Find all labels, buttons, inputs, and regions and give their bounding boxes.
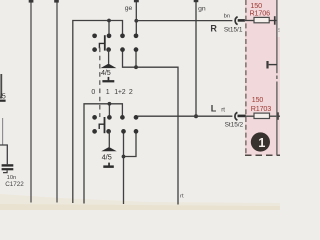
pink box bottom dashed border xyxy=(245,154,280,156)
junction dot xyxy=(122,155,126,159)
ge top terminal blob xyxy=(134,0,139,2)
ground triangle 4/5 upper xyxy=(101,64,117,69)
svg-text:4/5: 4/5 xyxy=(0,93,6,100)
wire: block2 branch down to contact xyxy=(108,104,110,118)
wire into resistor R1703 xyxy=(245,115,254,117)
wire into resistor R1706 xyxy=(245,20,254,22)
capacitor C1722 plates xyxy=(2,164,14,166)
switch block 2 contact dots top row xyxy=(92,115,97,120)
junction dot xyxy=(108,102,112,106)
capacitor C1722 lead from left xyxy=(0,145,7,164)
wire out of resistor R1703 xyxy=(270,115,281,117)
connector strip white corner top-right xyxy=(277,0,280,37)
switch block 1 contact dots top row xyxy=(92,33,97,38)
ground wire from block 2 xyxy=(108,131,110,147)
pin bar R1706 output xyxy=(274,16,276,25)
connector St15/2 female arc xyxy=(235,112,237,120)
switch block 2 wiper bar xyxy=(104,117,106,133)
svg-text:S: S xyxy=(278,28,280,34)
capacitor plate stub inside box xyxy=(266,61,268,69)
svg-text:C1722: C1722 xyxy=(5,181,24,188)
wire L: horizontal from switch to connector St15/2 xyxy=(136,115,232,117)
wire out of resistor R1706 xyxy=(269,20,277,22)
ground triangle 4/5 lower xyxy=(101,147,116,151)
svg-text:L: L xyxy=(211,104,217,114)
svg-text:1+2: 1+2 xyxy=(114,89,126,96)
capacitor C1722 bottom lead xyxy=(3,170,7,172)
switch block 1 contact dots bottom row xyxy=(92,47,97,52)
pin bar R1703 output xyxy=(277,112,279,120)
svg-text:4/5: 4/5 xyxy=(101,68,111,77)
wire: block2 top feed xyxy=(84,104,122,204)
bottom page-edge cream band xyxy=(0,194,280,210)
resistor R1703 body xyxy=(254,113,270,118)
gn top terminal blob xyxy=(194,0,199,2)
wire R: horizontal to connector St15/1 xyxy=(136,20,232,22)
wire: block1 output to long vertical xyxy=(123,50,179,205)
svg-text:R: R xyxy=(210,23,217,33)
wire ge: vertical from top xyxy=(135,2,137,36)
mechanical linkage dashed line xyxy=(99,48,101,118)
svg-text:10n: 10n xyxy=(7,175,17,181)
wire: vertical battery feed left 1 xyxy=(30,2,32,203)
wire: block1 contact 4 drop xyxy=(135,50,137,68)
wire: branch down to contact 1/2 xyxy=(108,21,110,36)
svg-text:gn: gn xyxy=(198,6,206,13)
svg-text:R1706: R1706 xyxy=(250,8,271,17)
connector St15/1 female arc xyxy=(235,17,237,25)
switch block 2 contact dots bottom row xyxy=(92,129,97,134)
svg-text:2: 2 xyxy=(129,89,133,96)
svg-text:ge: ge xyxy=(125,5,133,12)
junction dot gn / L-wire xyxy=(194,114,198,118)
svg-text:4/5: 4/5 xyxy=(102,153,112,162)
resistor R1706 body xyxy=(254,17,269,22)
wire: top feed horizontal to switch block 1 xyxy=(73,21,123,204)
svg-text:rt: rt xyxy=(221,107,225,114)
pink box left dashed border xyxy=(245,0,247,155)
note marker circled 1 xyxy=(251,132,270,151)
wire top terminal blob left 1 xyxy=(29,0,34,3)
junction dot ge / R-wire xyxy=(134,19,138,23)
connector St15/1 pin xyxy=(238,19,245,22)
wire top terminal blob left 2 xyxy=(54,0,59,3)
left edge cropped ground wire xyxy=(0,74,2,99)
svg-text:R1703: R1703 xyxy=(251,104,272,113)
svg-text:bn: bn xyxy=(224,13,230,19)
connector strip edge line right xyxy=(276,0,278,73)
wire gn: vertical down to L wire xyxy=(195,2,197,117)
connector St15/2 pin xyxy=(238,115,246,118)
faint wire left edge xyxy=(2,118,4,145)
svg-text:St15/2: St15/2 xyxy=(225,122,244,129)
svg-text:rt: rt xyxy=(180,193,184,199)
ground wire from block 1 xyxy=(108,50,110,64)
svg-text:0: 0 xyxy=(91,89,95,96)
ground post symbol upper xyxy=(108,77,110,80)
junction dot xyxy=(107,19,111,23)
svg-text:St15/1: St15/1 xyxy=(224,27,243,34)
junction dot xyxy=(134,65,138,69)
ground post symbol lower xyxy=(108,163,110,166)
left edge ground post xyxy=(0,100,6,102)
switch block 1 wiper bar xyxy=(104,35,106,50)
svg-text:1: 1 xyxy=(258,135,265,150)
wire: block2 outputs join and run down xyxy=(124,131,137,156)
svg-text:1: 1 xyxy=(106,89,110,96)
page background xyxy=(0,0,280,210)
wire: vertical battery feed left 2 xyxy=(56,2,58,203)
component box (pink, dashed outline) xyxy=(245,0,280,156)
